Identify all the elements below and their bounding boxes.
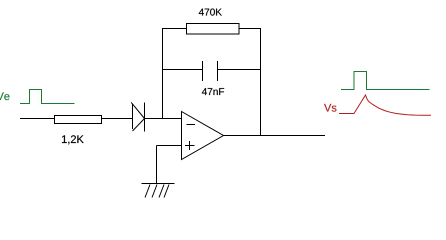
wire input to resistor R1 — [20, 118, 55, 120]
resistor R1 value 1,2K — [62, 135, 84, 144]
output pulse waveform (green) — [341, 72, 430, 90]
op-amp U1 — [182, 112, 224, 160]
node Vs label — [324, 104, 336, 112]
op-amp U1 plus symbol — [185, 141, 195, 150]
wire resistor R1 to diode D1 — [102, 118, 133, 120]
wire op-amp output — [224, 135, 326, 137]
wire diode D1 to op-amp inverting input — [145, 118, 182, 120]
wire feedback left vertical — [162, 28, 164, 119]
wire feedback top left to resistor R2 — [163, 28, 187, 30]
wire capacitor C1 left lead — [163, 69, 203, 71]
output response waveform Vs (red) — [339, 95, 431, 115]
diode D1 — [131, 102, 144, 131]
resistor R1 1,2K — [55, 116, 102, 124]
op-amp U1 minus symbol — [187, 124, 196, 126]
resistor R2 470K — [187, 24, 240, 35]
capacitor C1 value 47nF — [202, 88, 224, 95]
node Ve label — [0, 92, 9, 100]
input pulse waveform Ve (green) — [20, 90, 75, 104]
wire resistor R2 to feedback right vertical — [239, 28, 261, 30]
wire op-amp non-inverting input — [157, 145, 182, 147]
wire non-inverting input down to ground — [156, 146, 158, 184]
capacitor C1 — [203, 61, 218, 81]
resistor R2 value 470K — [199, 9, 222, 16]
ground — [142, 184, 175, 198]
wire feedback right vertical — [260, 28, 262, 136]
wire capacitor C1 right lead — [218, 69, 261, 71]
